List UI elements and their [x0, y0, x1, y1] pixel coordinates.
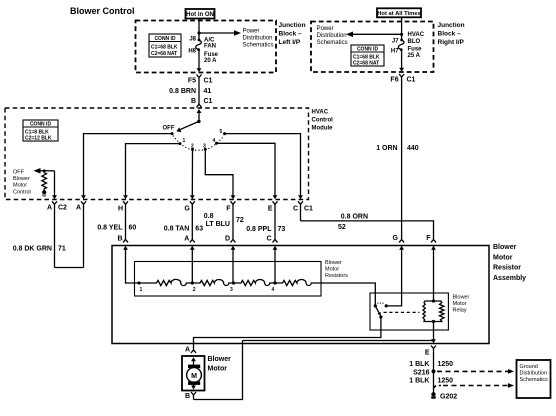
svg-text:HVAC: HVAC: [408, 32, 425, 38]
connector into assembly pin A: [190, 239, 195, 242]
wire coil bottom to pin E: [433, 322, 435, 341]
switch S1 wiper blade arrow: [180, 121, 199, 129]
svg-text:OFF: OFF: [163, 126, 175, 132]
resistor R4: [275, 280, 321, 286]
svg-text:Ground: Ground: [520, 364, 538, 370]
svg-text:52: 52: [338, 224, 346, 231]
node coil bottom: [432, 320, 435, 323]
svg-text:41: 41: [204, 88, 212, 95]
svg-text:G: G: [184, 206, 190, 213]
wire OFF contact to pin A: [84, 134, 173, 196]
HVAC control module dashed box: [5, 108, 309, 200]
connector motor pin B female Y: [191, 392, 196, 400]
svg-text:B: B: [191, 98, 196, 105]
wire pin C to resistor terminal 4: [274, 249, 276, 284]
svg-text:Control: Control: [312, 118, 334, 124]
wire OFF control to pin A C2: [54, 171, 56, 196]
svg-text:A: A: [76, 205, 81, 212]
svg-text:4: 4: [272, 287, 275, 293]
fuse HVAC BLO 25A: [400, 39, 403, 42]
svg-text:Power: Power: [317, 26, 334, 32]
CONN ID table left JB: [149, 34, 181, 57]
svg-text:1250: 1250: [438, 361, 454, 368]
svg-text:C2=12 BLK: C2=12 BLK: [25, 136, 52, 142]
wire contact 4 to pin E: [217, 143, 276, 195]
svg-text:FAN: FAN: [204, 44, 216, 50]
svg-text:2: 2: [191, 144, 194, 150]
svg-text:1 BLK: 1 BLK: [409, 377, 429, 384]
switch S1 wiper pivot: [197, 120, 200, 123]
node resistor top: [43, 169, 46, 172]
connector F6 C1 female Y: [399, 74, 404, 239]
svg-text:25 A: 25 A: [408, 53, 421, 59]
svg-text:0.8 BRN: 0.8 BRN: [169, 88, 196, 95]
wire wiper feed: [198, 112, 200, 121]
switch contact 3: [204, 148, 207, 151]
svg-text:Right I/P: Right I/P: [438, 39, 465, 46]
resistor R3: [234, 280, 276, 286]
module pin C C1 connector: [298, 195, 303, 199]
switch contact 2: [191, 148, 194, 151]
resistor OFF control: [42, 171, 47, 191]
svg-text:0.8: 0.8: [204, 213, 214, 220]
ground distribution schematics box: [517, 360, 551, 398]
svg-text:C1=8 BLK: C1=8 BLK: [25, 129, 49, 135]
wire motor pin B return to relay/ground junction: [194, 341, 243, 400]
svg-text:Control: Control: [13, 189, 31, 195]
wire motor return to pin E junction: [243, 340, 434, 342]
wire relay contact to pin G: [386, 249, 401, 306]
relay coil left branch: [423, 301, 434, 322]
svg-text:C1=68 BLK: C1=68 BLK: [353, 54, 380, 60]
relay switch fixed contact node: [385, 304, 388, 307]
svg-text:H: H: [118, 206, 123, 213]
blower motor resistor assembly box: [112, 246, 489, 344]
svg-text:D: D: [225, 235, 230, 242]
wire contact 2 to pin G: [191, 149, 193, 195]
resistor R1: [139, 279, 192, 285]
svg-text:H8: H8: [188, 49, 196, 55]
svg-text:S216: S216: [413, 369, 429, 376]
svg-text:1 ORN: 1 ORN: [376, 145, 397, 152]
relay switch dotted throw: [377, 302, 385, 304]
svg-text:3: 3: [230, 287, 233, 293]
svg-text:1: 1: [183, 138, 186, 144]
wire branch to power distribution: [199, 32, 235, 34]
wire contact 3 to pin F: [205, 149, 233, 195]
svg-text:F6: F6: [390, 77, 398, 84]
switch contact OFF: [171, 132, 174, 135]
svg-text:J8: J8: [189, 37, 196, 43]
svg-text:Fuse: Fuse: [408, 46, 423, 52]
svg-text:B: B: [185, 393, 190, 400]
svg-text:Junction: Junction: [279, 22, 306, 29]
svg-text:CONN ID: CONN ID: [357, 47, 379, 53]
connector at assembly exit pin A to motor: [191, 350, 196, 353]
svg-text:BLO: BLO: [408, 39, 421, 45]
svg-text:440: 440: [407, 145, 419, 152]
module pin F connector: [231, 195, 236, 199]
wire pin F to relay coil: [433, 249, 435, 302]
wire contact 1 to pin H: [126, 144, 181, 196]
arrow to power distribution schematics: [234, 30, 241, 36]
wire contact 5 to pin C: [225, 134, 301, 196]
svg-text:G202: G202: [440, 393, 457, 400]
svg-text:M: M: [191, 373, 197, 380]
svg-text:1250: 1250: [438, 377, 454, 384]
svg-text:C2=68 NAT: C2=68 NAT: [151, 51, 177, 57]
svg-text:Distribution: Distribution: [243, 36, 273, 42]
svg-text:Block –: Block –: [279, 31, 303, 38]
connector into assembly pin B: [123, 239, 128, 242]
node coil top: [432, 299, 435, 302]
module pin H connector: [123, 195, 128, 199]
blower motor resistors box: [135, 262, 322, 297]
node relay blade output: [379, 315, 382, 318]
svg-text:4: 4: [213, 138, 216, 144]
motor M1 top brush: [188, 365, 200, 369]
svg-text:Schematics: Schematics: [243, 43, 274, 49]
motor M1 bottom brush: [188, 381, 200, 385]
dashed wire G202 branch to ground distribution: [434, 386, 442, 389]
blower motor relay box: [370, 293, 448, 330]
connector Y into module (prongs down): [197, 104, 202, 107]
svg-text:72: 72: [236, 217, 244, 224]
svg-text:A: A: [184, 235, 189, 242]
svg-text:0.8 DK GRN: 0.8 DK GRN: [13, 246, 52, 253]
connector arrow into motor (male, up): [191, 357, 196, 361]
wire pin B to resistor terminal 1: [126, 249, 140, 284]
node junction above fuse: [197, 31, 200, 34]
svg-text:5: 5: [220, 129, 223, 135]
dashed wire S216 to ground distribution: [437, 370, 510, 372]
svg-text:Blower: Blower: [453, 295, 470, 301]
node OFF control terminal dot: [42, 190, 46, 194]
svg-text:A: A: [47, 205, 52, 212]
connector arrow at JB edge (male): [399, 68, 404, 72]
svg-text:71: 71: [58, 246, 66, 253]
relay mechanical link dashed: [384, 311, 420, 313]
resistor R2: [192, 280, 233, 286]
svg-text:Blower: Blower: [493, 244, 517, 251]
svg-text:0.8 TAN: 0.8 TAN: [164, 226, 190, 233]
svg-text:0.8 PPL: 0.8 PPL: [246, 226, 272, 233]
svg-text:0.8 ORN: 0.8 ORN: [341, 214, 368, 221]
wire branch to power distribution: [352, 33, 402, 35]
junction block right I/P dashed box: [311, 22, 434, 73]
svg-text:C: C: [266, 235, 271, 242]
CONN ID table right JB: [351, 45, 384, 66]
svg-text:C1: C1: [304, 206, 313, 213]
node terminal 4: [273, 281, 276, 284]
connector into assembly pin D: [231, 239, 236, 242]
wire 0.8 DK GRN 71 jumper loop: [55, 267, 84, 269]
svg-text:OFF: OFF: [13, 169, 25, 175]
svg-text:Motor: Motor: [325, 267, 339, 273]
svg-text:60: 60: [129, 224, 137, 231]
svg-text:E: E: [425, 350, 430, 357]
svg-text:H7: H7: [391, 49, 399, 55]
svg-text:Junction: Junction: [438, 22, 465, 29]
ground G202 symbol: [431, 392, 435, 396]
node terminal 3: [232, 281, 235, 284]
svg-text:CONN ID: CONN ID: [30, 122, 52, 128]
wire relay blade output to blower motor pin A: [194, 317, 381, 350]
svg-text:20 A: 20 A: [204, 58, 217, 64]
svg-text:C2: C2: [58, 205, 67, 212]
svg-text:E: E: [268, 206, 273, 213]
svg-text:Blower: Blower: [13, 176, 30, 182]
wire pin A to resistor terminal 2: [191, 249, 193, 284]
node terminal 2: [191, 281, 194, 284]
switch contact 1: [179, 142, 182, 145]
blower motor box: [182, 356, 205, 391]
connector pin E female Y below assembly: [431, 346, 436, 393]
svg-text:Schematics: Schematics: [520, 377, 549, 383]
connector into assembly pin G: [399, 239, 404, 242]
node terminal 1: [137, 281, 140, 284]
svg-text:73: 73: [278, 226, 286, 233]
module pin A connector: [81, 195, 86, 199]
svg-text:Resistor: Resistor: [493, 265, 521, 272]
svg-text:C1: C1: [407, 77, 416, 84]
svg-text:J7: J7: [392, 39, 399, 45]
svg-text:0.8 YEL: 0.8 YEL: [97, 224, 123, 231]
svg-text:Distribution: Distribution: [520, 371, 548, 377]
wire from Hot in ON to fuse J8: [198, 19, 200, 40]
node E junction arrow at assembly edge: [431, 339, 436, 343]
svg-text:Motor: Motor: [13, 183, 27, 189]
svg-text:Hot in ON: Hot in ON: [186, 12, 214, 18]
relay switch blade: [375, 306, 379, 313]
svg-text:HVAC: HVAC: [312, 110, 329, 116]
wire into motor: [193, 360, 195, 365]
Hot in ON box: [186, 9, 215, 19]
switch contact 5: [223, 132, 226, 135]
svg-text:G: G: [393, 235, 399, 242]
svg-text:Block –: Block –: [438, 31, 462, 38]
svg-text:1: 1: [140, 287, 143, 293]
CONN ID table module: [23, 120, 58, 141]
fuse A/C FAN 20A: [198, 39, 201, 42]
svg-text:C1: C1: [204, 98, 213, 105]
svg-text:2: 2: [193, 287, 196, 293]
switch position dotted arc: [173, 136, 224, 151]
Hot at All Times box: [377, 8, 421, 17]
module pin A C2 connector: [52, 195, 57, 199]
connector into assembly pin C: [273, 239, 278, 242]
node junction above fuse: [400, 33, 403, 36]
svg-text:Resistors: Resistors: [325, 273, 348, 279]
wire from Hot at All Times to fuse J7: [401, 18, 403, 40]
svg-text:63: 63: [195, 226, 203, 233]
relay coil right branch resistor: [434, 301, 445, 322]
connector arrow at motor bottom (male, down): [191, 386, 196, 390]
svg-text:A: A: [185, 347, 190, 354]
svg-text:Blower Control: Blower Control: [70, 6, 135, 16]
svg-text:C: C: [293, 206, 298, 213]
relay switch common node: [374, 304, 377, 307]
svg-text:Distribution: Distribution: [317, 33, 347, 39]
connector arrow into module (male, up): [197, 109, 202, 113]
svg-text:Hot at All Times: Hot at All Times: [377, 11, 421, 17]
svg-text:Motor: Motor: [493, 254, 513, 261]
wire 0.8 ORN 52 from module pin C to assembly pin F: [301, 221, 434, 240]
svg-text:C1=68 BLK: C1=68 BLK: [151, 45, 178, 51]
svg-text:1 BLK: 1 BLK: [409, 361, 429, 368]
motor M1 armature circle: [187, 368, 202, 383]
svg-text:Assembly: Assembly: [493, 275, 526, 282]
svg-text:F: F: [226, 206, 231, 213]
svg-text:3: 3: [203, 144, 206, 150]
switch contact 4: [215, 142, 218, 145]
svg-text:CONN ID: CONN ID: [154, 36, 176, 42]
svg-text:Blower: Blower: [208, 356, 232, 363]
OFF blower motor control annotation arrow: [34, 168, 41, 174]
connector into assembly pin F: [431, 239, 436, 242]
svg-text:B: B: [117, 235, 122, 242]
wire fuse to F5 connector: [198, 50, 200, 69]
svg-text:Module: Module: [312, 125, 334, 131]
svg-text:Motor: Motor: [208, 365, 228, 372]
svg-text:Schematics: Schematics: [317, 40, 348, 46]
svg-text:LT BLU: LT BLU: [206, 221, 230, 228]
wire resistor chain output to relay common: [321, 283, 375, 305]
wire fuse to F6 connector: [401, 50, 403, 68]
svg-text:Motor: Motor: [453, 301, 467, 307]
svg-text:Blower: Blower: [325, 260, 342, 266]
svg-text:F5: F5: [188, 78, 196, 85]
module pin E connector: [273, 195, 278, 199]
svg-text:C1: C1: [204, 78, 213, 85]
wire out of motor: [193, 385, 195, 387]
svg-text:F: F: [426, 235, 431, 242]
svg-text:Relay: Relay: [453, 308, 467, 314]
svg-text:Left I/P: Left I/P: [279, 39, 301, 46]
connector arrow at JB edge (male): [197, 68, 202, 72]
connector F5 C1 female Y: [197, 75, 202, 105]
junction block left I/P dashed box: [136, 21, 277, 73]
svg-text:C2=68 NAT: C2=68 NAT: [353, 61, 379, 67]
module pin G connector: [190, 195, 195, 199]
svg-text:Power: Power: [243, 29, 260, 35]
wire pin D to resistor terminal 3: [232, 249, 234, 284]
arrow to power distribution schematics: [346, 32, 353, 38]
